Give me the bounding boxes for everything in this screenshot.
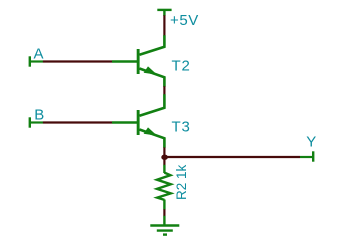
wire input B <box>43 121 112 123</box>
wire input A pin stub left <box>30 60 43 62</box>
wire resistor to ground <box>163 209 165 216</box>
svg-text:T2: T2 <box>172 58 191 75</box>
bar 3 <box>163 233 167 235</box>
resistor R2 <box>157 165 171 210</box>
svg-text:Y: Y <box>306 133 316 150</box>
emitter <box>140 130 165 148</box>
bar 2 <box>157 229 173 231</box>
power +5V symbol <box>157 10 171 16</box>
wire T3 emitter to node Y junction <box>163 147 165 165</box>
emitter arrow <box>144 127 158 135</box>
node Y terminal tick <box>312 151 314 161</box>
wire input A <box>43 60 112 62</box>
transistor T2 <box>112 35 164 87</box>
node B terminal tick <box>29 117 31 127</box>
base pin <box>112 121 137 123</box>
bar 1 <box>150 224 179 226</box>
wire +5V rail to T2 collector <box>163 15 165 36</box>
svg-text:B: B <box>34 107 44 124</box>
collector <box>140 35 165 55</box>
transistor T3 <box>112 94 164 148</box>
ground <box>150 216 179 235</box>
zigzag body <box>157 173 171 200</box>
svg-text:A: A <box>34 46 44 63</box>
base bar <box>137 49 140 74</box>
bottom lead <box>163 200 165 210</box>
wire T2 emitter to T3 collector <box>163 86 165 94</box>
top lead <box>163 165 165 173</box>
svg-text:T3: T3 <box>172 119 191 136</box>
node A terminal tick <box>29 56 31 66</box>
pin stub <box>163 216 165 226</box>
svg-text:+5V: +5V <box>170 12 199 29</box>
base pin <box>112 60 137 62</box>
wire output Y pin stub <box>300 156 313 158</box>
wire input B pin stub left <box>30 121 43 123</box>
svg-text:R2 1k: R2 1k <box>174 164 189 200</box>
base bar <box>137 110 140 135</box>
emitter <box>140 69 165 87</box>
wire junction to output Y <box>165 156 300 158</box>
emitter arrow <box>144 66 158 74</box>
collector <box>140 94 165 116</box>
junction dot <box>161 155 168 160</box>
